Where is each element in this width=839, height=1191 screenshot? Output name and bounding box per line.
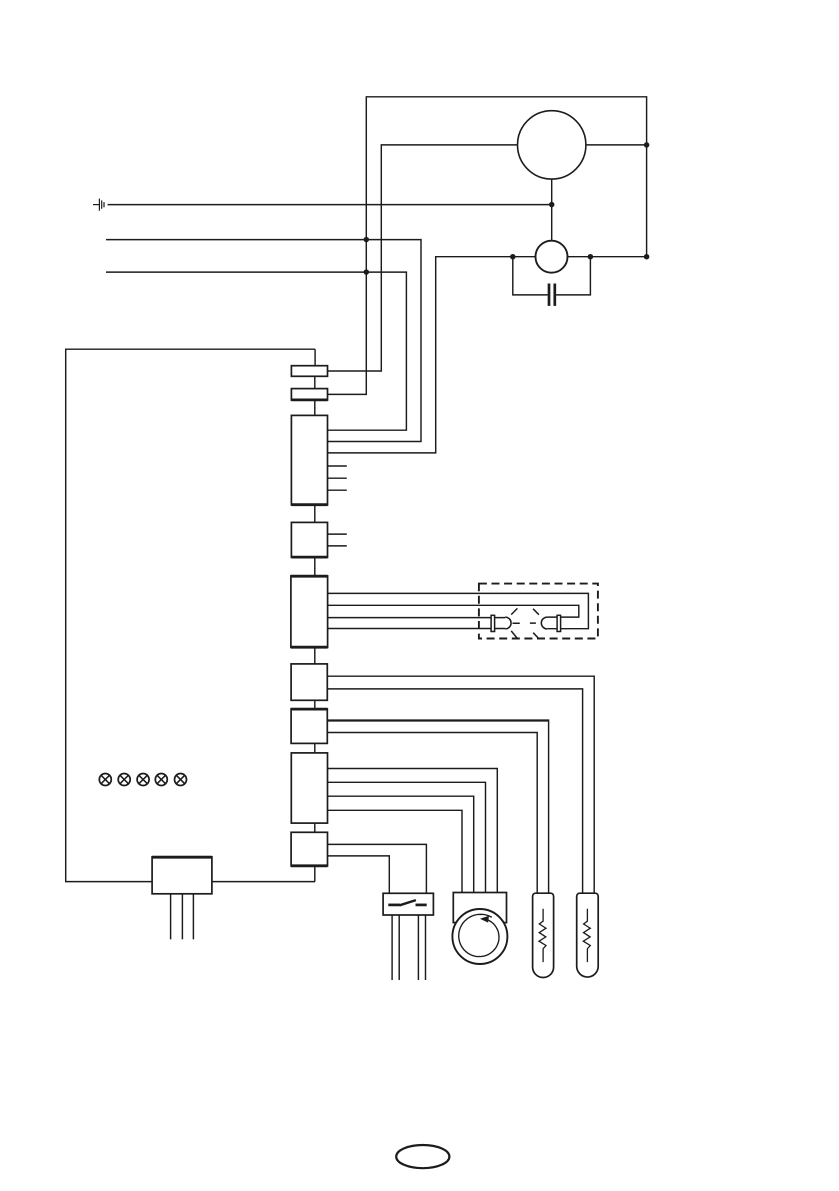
sensor lamp L2 body [577,893,599,977]
control unit large rectangle [66,349,315,881]
wire I2 to switch left terminal [328,856,390,893]
wire E4 left lamp bottom lead [328,628,506,630]
wire I1 to switch right terminal [328,844,427,893]
wire line2 to connector C pin2 [106,240,421,442]
wire G2 to lamp L1 left lead [327,733,537,894]
wire F1 to lamp L2 right lead [327,676,594,893]
left bulb rays [511,608,520,638]
node line2 x bus [364,237,370,243]
resistor R2 inside L2 [583,909,590,962]
switch S1 box [383,893,433,915]
wire big circle bottom to small circle [551,179,553,241]
connector H [291,753,327,823]
wire top loop of starter/alternator rectangle [328,97,647,395]
wires below bottom connector [171,894,194,940]
wire capacitor branch [513,257,591,295]
ground symbol [93,199,104,211]
resistor R1 inside L1 [539,909,546,962]
wire H1 to motor M3 [328,769,498,893]
right bulb rays [530,609,539,639]
connector C stub pins [328,466,347,490]
wire small circle left to connector C pin3 [328,257,536,453]
dashed lamp housing box [479,584,598,639]
connector G [291,709,327,744]
connector C [291,415,327,505]
connector D [291,522,327,557]
node ground line junction [549,202,555,208]
wire H3 to motor M3 [328,796,474,892]
motor M3 rotor circle [452,909,507,964]
connector B [291,389,327,401]
wire from big circle right to right bus [586,144,647,146]
bottom connector block on control unit [152,857,212,894]
control unit right edge segments [314,349,316,881]
wire from big circle left to connector A [328,145,518,371]
right bulb dome [541,617,547,629]
connector E [291,576,328,648]
page number oval [396,1145,449,1168]
wire small circle right to right bus [568,256,647,258]
left bulb dome [505,617,511,629]
indicator lamp cluster (5 x circled-X) [99,774,186,786]
wire G1 to lamp L1 right lead [327,719,548,721]
node capacitor left tap [510,254,516,260]
motor M3 rotation arrow spiral arc [459,914,499,956]
connector D stub pins [328,534,347,546]
motor M3 arrowhead [480,916,489,923]
wire E3 left lamp top lead [328,617,506,619]
wire E1 to right lamp bottom [328,593,589,628]
node line3 x bus [364,269,370,275]
right bulb lamp collar [557,615,561,631]
switch S1 legs [392,915,425,980]
left bulb lamp collar [491,615,495,631]
wire H2 to motor M3 [328,782,486,892]
connector F [291,664,327,700]
node capacitor right tap [588,254,594,260]
wire ground to motor node [108,204,552,206]
wire line3 to connector C pin1 [106,272,406,430]
connector A [291,366,327,377]
node right bus bottom corner [644,254,650,260]
motor/alternator big circle M1 [518,111,586,179]
wire F2 to lamp L2 left lead [327,689,582,893]
wire E2 to right lamp top [328,605,579,617]
node junction big-circle right [644,142,650,148]
connector I [291,832,327,866]
wire H4 to motor M3 [328,810,463,892]
motor M3 cap [453,893,506,923]
sensor lamp L1 body [533,893,554,977]
switch S1 contacts and blade [388,904,400,907]
capacitor C1 plates [548,284,551,306]
solenoid small circle M2 [536,241,568,273]
